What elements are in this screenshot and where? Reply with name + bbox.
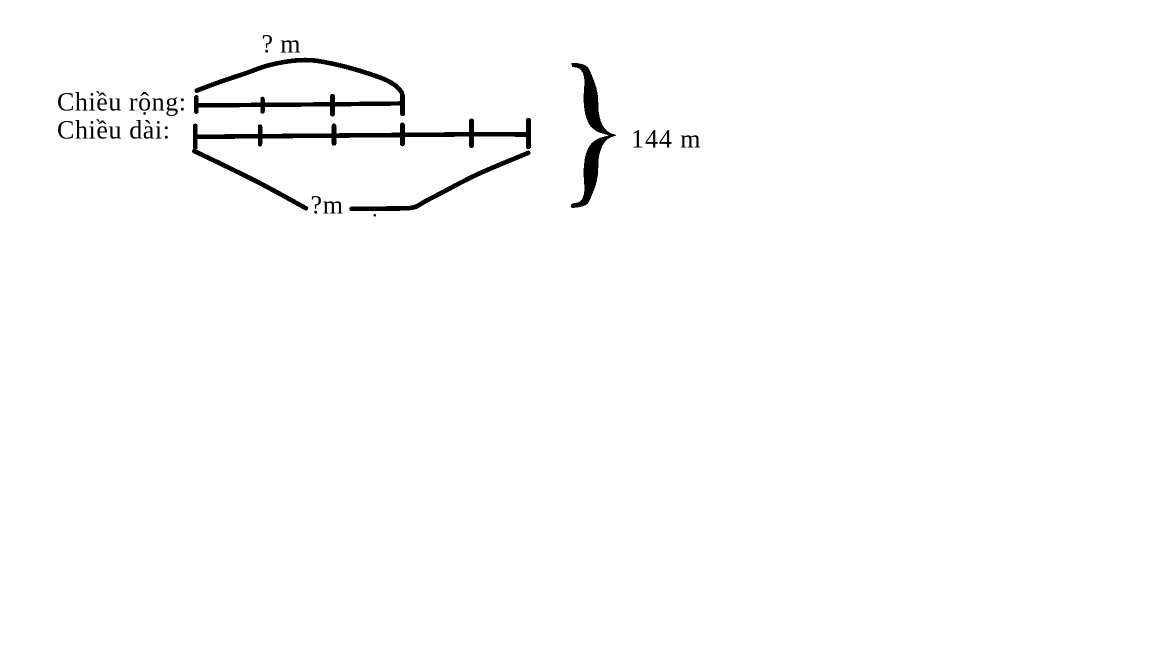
stray ink dot — [374, 214, 377, 217]
length bar tick 2 — [258, 127, 263, 145]
width bar tick 4 — [400, 96, 405, 114]
svg-text:? m: ? m — [262, 30, 301, 59]
length bar tick 5 — [469, 121, 474, 146]
length bar tick 3 — [332, 126, 337, 143]
width bar line — [196, 103, 403, 105]
big curly brace } for total — [571, 63, 616, 208]
length bar tick 6 — [526, 120, 531, 147]
svg-text:?m: ?m — [311, 191, 344, 220]
svg-text:Chiều dài:: Chiều dài: — [57, 116, 170, 145]
width bar tick 2 — [260, 99, 265, 112]
svg-text:Chiều rộng:: Chiều rộng: — [57, 87, 186, 116]
width bar tick 1 — [194, 97, 199, 111]
length bar tick 1 — [193, 126, 198, 148]
bottom brace horizontal + right rising slope — [352, 153, 529, 209]
length bar tick 4 — [400, 125, 405, 144]
bottom brace left slope (from length bar start down to "?m") — [194, 151, 306, 208]
width bar tick 3 — [330, 96, 335, 114]
svg-text:144 m: 144 m — [631, 125, 701, 154]
top curved brace over width bar — [197, 60, 402, 93]
length bar line — [196, 134, 529, 137]
